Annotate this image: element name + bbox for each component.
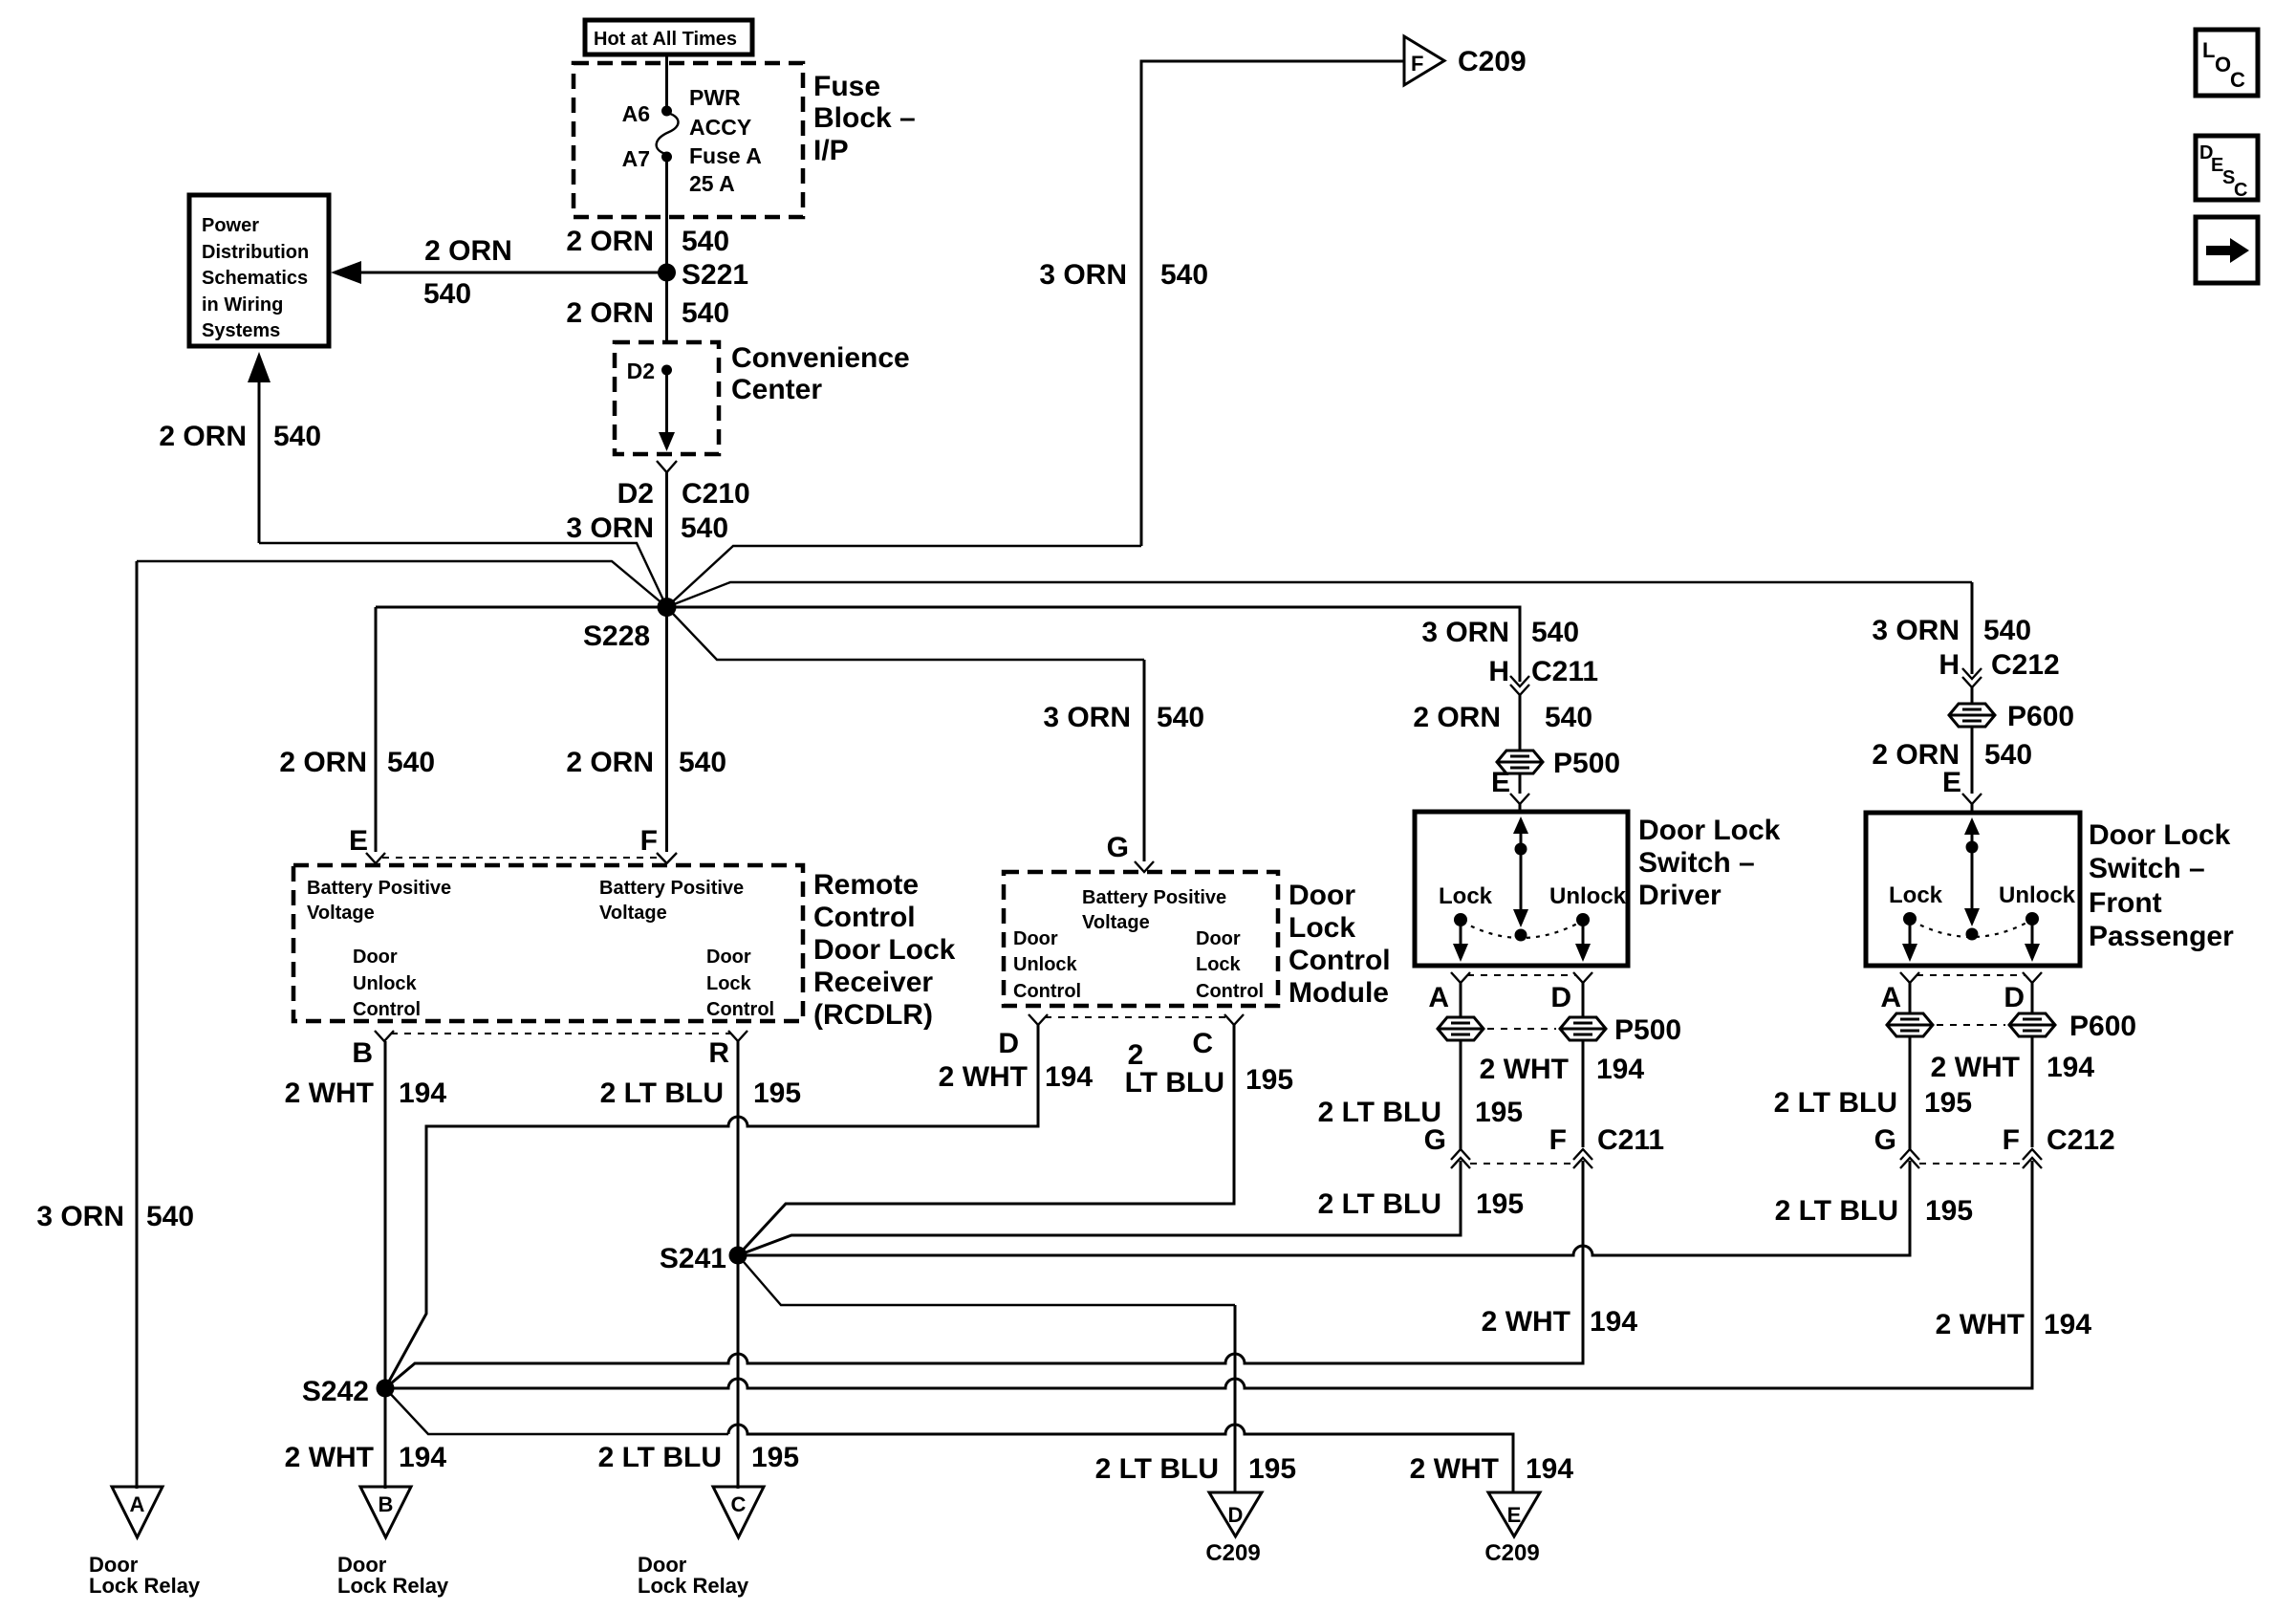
svg-text:540: 540 — [273, 421, 321, 452]
svg-text:S241: S241 — [660, 1243, 726, 1274]
svg-text:Convenience: Convenience — [731, 342, 910, 374]
svg-text:Lock: Lock — [1196, 954, 1242, 975]
svg-text:Control: Control — [1289, 945, 1391, 976]
terminal A6 — [661, 106, 672, 117]
lock contact — [1903, 912, 1917, 925]
svg-text:194: 194 — [399, 1078, 446, 1109]
svg-text:F: F — [1411, 52, 1423, 76]
svg-text:C: C — [731, 1492, 747, 1516]
svg-text:3 ORN: 3 ORN — [36, 1201, 124, 1232]
wire 3 ORN 540 from C210 to S228 — [665, 472, 668, 607]
svg-text:Block –: Block – — [813, 102, 916, 134]
svg-text:540: 540 — [681, 512, 728, 544]
svg-text:P500: P500 — [1553, 748, 1620, 779]
svg-text:PWR: PWR — [689, 85, 741, 110]
svg-text:D2: D2 — [617, 478, 654, 510]
wire from S228 down-right to door lock control module pin G — [667, 607, 1145, 660]
svg-text:195: 195 — [1475, 1097, 1523, 1128]
svg-text:540: 540 — [1545, 702, 1592, 733]
wire from S241 down-right to C209 triangle D (hops over three S242 lines) — [738, 1255, 1235, 1305]
thin dashed connector face line B-R — [391, 1033, 731, 1034]
wire 2 ORN 540 down to RCDLR pin E — [375, 607, 378, 852]
svg-text:2 ORN: 2 ORN — [279, 747, 367, 778]
svg-text:A7: A7 — [622, 146, 650, 171]
wire from S228 to left feed for door lock relay A — [137, 561, 667, 607]
svg-text:Door Lock: Door Lock — [1638, 815, 1781, 846]
svg-text:G: G — [1107, 832, 1129, 863]
svg-text:Unlock: Unlock — [353, 973, 418, 994]
thin dashed connector face line G-F C211 — [1470, 1163, 1573, 1165]
svg-text:2 LT BLU: 2 LT BLU — [1095, 1453, 1219, 1485]
off-page triangle E to C209 — [1488, 1492, 1540, 1536]
svg-text:Lock: Lock — [1439, 883, 1493, 909]
terminal A7 — [661, 152, 672, 163]
svg-text:S221: S221 — [682, 259, 748, 291]
svg-text:540: 540 — [387, 747, 435, 778]
svg-text:194: 194 — [1590, 1306, 1637, 1338]
svg-text:Module: Module — [1289, 977, 1389, 1009]
switch actuator arrow down — [1971, 847, 1974, 910]
switch pin A chevron — [1900, 972, 1919, 983]
switch pin E chevron — [1962, 794, 1982, 804]
svg-text:2 LT BLU: 2 LT BLU — [600, 1078, 724, 1109]
switch pin D chevron — [2023, 972, 2042, 983]
wire 2 ORN 540 from P600 to switch pin E — [1971, 727, 1974, 794]
svg-text:ACCY: ACCY — [689, 115, 751, 140]
wire A to P600 — [1909, 983, 1912, 1013]
wire from S228 down to RCDLR pin F — [665, 607, 668, 852]
RCDLR pin E chevron — [366, 853, 385, 863]
svg-text:Lock Relay: Lock Relay — [89, 1574, 201, 1598]
svg-text:Front: Front — [2089, 887, 2162, 919]
lock output arrow — [1460, 920, 1462, 948]
Hot at All Times banner box — [585, 20, 752, 54]
wire 2 ORN 540 from S221 to Power Distribution (arrow left) — [356, 272, 667, 274]
svg-text:E: E — [1491, 767, 1510, 798]
svg-text:2 LT BLU: 2 LT BLU — [1775, 1195, 1898, 1227]
RCDLR dashed box — [293, 865, 803, 1021]
splice S221 — [658, 264, 676, 282]
wire 2 WHT 194 from RCDLR B down to S242 — [384, 1041, 387, 1489]
svg-text:Control: Control — [813, 902, 916, 933]
svg-text:Receiver: Receiver — [813, 967, 933, 998]
off-page triangle C door lock relay — [713, 1487, 764, 1537]
svg-text:2 WHT: 2 WHT — [1410, 1453, 1499, 1485]
wire from S228 left to RCDLR pin E — [376, 606, 667, 609]
svg-text:195: 195 — [1245, 1064, 1293, 1096]
wire 3 ORN 540 left vertical down to triangle A — [136, 561, 139, 1489]
svg-text:540: 540 — [146, 1201, 194, 1232]
svg-text:Schematics: Schematics — [202, 268, 308, 289]
svg-text:2 WHT: 2 WHT — [1936, 1309, 2025, 1340]
svg-text:3 ORN: 3 ORN — [1421, 617, 1509, 648]
svg-text:B: B — [352, 1037, 373, 1069]
svg-text:P500: P500 — [1614, 1014, 1681, 1046]
svg-text:Door: Door — [1013, 928, 1058, 949]
RCDLR pin R chevron — [728, 1031, 747, 1041]
wire 2 WHT 194 unlock from P500 down — [1582, 1040, 1585, 1147]
svg-text:D: D — [2004, 982, 2025, 1013]
svg-text:Power: Power — [202, 215, 259, 236]
svg-text:540: 540 — [1984, 739, 2032, 771]
lock contact — [1454, 913, 1467, 926]
svg-text:194: 194 — [1596, 1054, 1644, 1085]
svg-text:C: C — [2230, 68, 2245, 92]
thin dashed connector face line E-F — [382, 857, 660, 859]
forward arrow icon box — [2196, 217, 2258, 283]
svg-text:2 LT BLU: 2 LT BLU — [598, 1442, 722, 1473]
svg-text:540: 540 — [1531, 617, 1579, 648]
wire A to P500 — [1460, 983, 1462, 1017]
off-page triangle B door lock relay — [360, 1487, 411, 1537]
switch actuator arrow down — [1520, 849, 1523, 911]
splice S241 — [729, 1247, 747, 1265]
svg-text:in Wiring: in Wiring — [202, 294, 283, 316]
svg-text:F: F — [640, 825, 658, 857]
svg-text:Battery Positive: Battery Positive — [1082, 887, 1226, 908]
connector P500 unlock circuit — [1560, 1017, 1606, 1040]
switch pin E chevron — [1510, 794, 1529, 804]
svg-text:2 ORN: 2 ORN — [566, 747, 654, 778]
wire 2 WHT 194 from C212 F to S242 (level line, hop over R wire) — [385, 1161, 2032, 1388]
svg-text:A6: A6 — [622, 101, 650, 126]
svg-text:C211: C211 — [1531, 656, 1598, 687]
wire from S228 level right to driver door lock switch column — [667, 607, 1521, 682]
thin dashed connector face line A-D — [1467, 974, 1576, 976]
svg-text:Control: Control — [353, 999, 421, 1020]
lock output arrow — [1909, 919, 1912, 948]
svg-text:25 A: 25 A — [689, 171, 735, 196]
svg-text:194: 194 — [2047, 1052, 2094, 1083]
svg-text:195: 195 — [1476, 1188, 1524, 1220]
svg-text:D2: D2 — [627, 359, 655, 383]
dashed wiper arc — [1912, 921, 2030, 937]
svg-text:2 LT BLU: 2 LT BLU — [1774, 1087, 1897, 1119]
splice S242 — [377, 1380, 395, 1398]
svg-text:Door Lock: Door Lock — [813, 934, 956, 966]
wire 2 ORN 540 from S221 down to Convenience Center — [665, 272, 668, 344]
Convenience Center dashed box — [615, 342, 719, 454]
svg-text:L: L — [2202, 38, 2215, 62]
RCDLR pin B chevron — [375, 1031, 394, 1041]
svg-text:S228: S228 — [583, 620, 650, 652]
svg-text:2 ORN: 2 ORN — [566, 297, 654, 329]
svg-text:Control: Control — [706, 999, 774, 1020]
wire 2 LT BLU 195 from C211 G to S241 — [738, 1161, 1461, 1255]
svg-text:G: G — [1424, 1124, 1446, 1156]
svg-text:E: E — [1507, 1503, 1522, 1527]
svg-text:2 LT BLU: 2 LT BLU — [1318, 1097, 1441, 1128]
svg-text:2 WHT: 2 WHT — [939, 1061, 1028, 1093]
svg-text:D: D — [1228, 1503, 1244, 1527]
svg-text:3 ORN: 3 ORN — [1039, 259, 1127, 291]
fuse block I/P dashed box — [574, 63, 803, 217]
svg-text:C209: C209 — [1484, 1540, 1539, 1566]
svg-text:2 WHT: 2 WHT — [1931, 1052, 2020, 1083]
dashed wiper arc — [1462, 922, 1581, 938]
switch pin D chevron — [1573, 972, 1592, 983]
svg-text:Systems: Systems — [202, 320, 280, 341]
unlock output arrow — [1582, 920, 1585, 948]
svg-text:2 LT BLU: 2 LT BLU — [1318, 1188, 1441, 1220]
svg-text:195: 195 — [753, 1078, 801, 1109]
svg-text:P600: P600 — [2007, 701, 2074, 732]
Door Lock Switch Driver box — [1415, 812, 1628, 966]
wire D to P500 — [1582, 983, 1585, 1017]
svg-text:Control: Control — [1013, 981, 1081, 1002]
switch common feed arrow up — [1971, 828, 1974, 846]
svg-text:2 ORN: 2 ORN — [566, 226, 654, 257]
svg-text:194: 194 — [399, 1442, 446, 1473]
svg-text:C209: C209 — [1458, 46, 1527, 77]
svg-text:Voltage: Voltage — [1082, 912, 1150, 933]
connector P500 inline (power feed) — [1497, 751, 1543, 773]
svg-text:Battery Positive: Battery Positive — [307, 878, 451, 899]
Door Lock Switch Front Passenger box — [1866, 813, 2080, 966]
wire 2 LT BLU 195 from module C to S241 — [738, 1025, 1234, 1255]
svg-text:E: E — [349, 825, 368, 857]
svg-text:3 ORN: 3 ORN — [566, 512, 654, 544]
svg-text:A: A — [1428, 982, 1449, 1013]
svg-text:Remote: Remote — [813, 869, 919, 901]
thin dashed connector face line A-D — [1917, 974, 2025, 976]
svg-text:Switch –: Switch – — [2089, 853, 2205, 884]
wire 2 ORN 540 from fuse A7 to splice S221 — [665, 157, 668, 272]
svg-text:C: C — [1192, 1028, 1213, 1059]
svg-text:Voltage: Voltage — [599, 903, 667, 924]
svg-text:540: 540 — [682, 226, 729, 257]
svg-text:LT BLU: LT BLU — [1125, 1067, 1224, 1099]
svg-text:195: 195 — [1248, 1453, 1296, 1485]
svg-text:(RCDLR): (RCDLR) — [813, 999, 933, 1031]
splice S228 — [658, 598, 677, 617]
svg-text:H: H — [1488, 656, 1509, 687]
svg-text:R: R — [708, 1037, 729, 1069]
svg-text:540: 540 — [423, 278, 471, 310]
svg-text:A: A — [130, 1492, 145, 1516]
svg-text:194: 194 — [2044, 1309, 2091, 1340]
svg-text:Door: Door — [353, 947, 398, 968]
wire from S228 right to passenger door lock switch column — [667, 582, 1973, 607]
svg-text:C209: C209 — [1205, 1540, 1260, 1566]
wire 2 LT BLU 195 from RCDLR R down to S241 (hop over D-module line) — [737, 1041, 740, 1489]
svg-text:Door: Door — [1196, 928, 1241, 949]
svg-text:195: 195 — [1925, 1195, 1973, 1227]
svg-text:3 ORN: 3 ORN — [1872, 615, 1960, 646]
svg-text:Fuse A: Fuse A — [689, 143, 762, 168]
svg-text:Driver: Driver — [1638, 880, 1722, 911]
wire from S228 to power distribution arrow branch — [259, 543, 667, 607]
svg-text:C211: C211 — [1597, 1124, 1664, 1156]
dashed tie between P600 halves — [1937, 1024, 2005, 1026]
svg-text:Unlock: Unlock — [1013, 954, 1078, 975]
wire 2 ORN 540 from S228 up into Power Distribution box (arrow up) — [258, 363, 261, 543]
svg-text:Lock: Lock — [1289, 912, 1355, 944]
svg-text:D: D — [998, 1028, 1019, 1059]
svg-text:B: B — [379, 1492, 394, 1516]
svg-text:P600: P600 — [2069, 1011, 2136, 1042]
connector C212 pin G double chevron — [1900, 1149, 1919, 1168]
thin dashed connector face line D-C — [1045, 1016, 1227, 1018]
svg-text:Door: Door — [1289, 880, 1355, 911]
wire from S228 up-right to connector C209 F — [667, 546, 1142, 607]
svg-text:Lock Relay: Lock Relay — [638, 1574, 749, 1598]
connector C211 pin G double chevron — [1451, 1149, 1470, 1168]
svg-text:F: F — [2003, 1124, 2020, 1156]
svg-text:Door: Door — [706, 947, 751, 968]
connector C211 pin F double chevron — [1573, 1149, 1592, 1168]
svg-text:Lock: Lock — [706, 973, 752, 994]
svg-text:540: 540 — [1983, 615, 2031, 646]
module pin D chevron — [1029, 1014, 1048, 1025]
svg-text:2 ORN: 2 ORN — [424, 235, 512, 267]
wire D to P600 — [2031, 983, 2034, 1013]
Door Lock Control Module dashed box — [1004, 872, 1278, 1006]
unlock contact — [2025, 912, 2039, 925]
connector C212 pin F double chevron — [2023, 1149, 2042, 1168]
svg-text:2 ORN: 2 ORN — [159, 421, 247, 452]
svg-text:Unlock: Unlock — [1549, 883, 1627, 909]
svg-text:Door Lock: Door Lock — [2089, 819, 2231, 851]
svg-text:2 ORN: 2 ORN — [1413, 702, 1501, 733]
wire 2 LT BLU 195 lock from P600 down — [1909, 1036, 1912, 1149]
svg-text:F: F — [1549, 1124, 1567, 1156]
svg-text:Control: Control — [1196, 981, 1264, 1002]
svg-text:C212: C212 — [2047, 1124, 2115, 1156]
svg-text:2 WHT: 2 WHT — [1482, 1306, 1570, 1338]
svg-text:A: A — [1880, 982, 1901, 1013]
thin dashed connector face line G-F C212 — [1919, 1163, 2023, 1165]
wire from hot feed into fuse terminal A6 — [665, 54, 668, 109]
wire from P500 to switch pin E — [1519, 773, 1522, 794]
svg-text:195: 195 — [751, 1442, 799, 1473]
svg-text:I/P: I/P — [813, 135, 849, 166]
connector P600 lock circuit — [1887, 1013, 1933, 1036]
svg-text:D: D — [1550, 982, 1571, 1013]
DESC icon box — [2196, 136, 2258, 200]
fuse PWR ACCY Fuse A 25A symbol — [657, 113, 679, 154]
svg-text:Distribution: Distribution — [202, 242, 309, 263]
svg-text:Battery Positive: Battery Positive — [599, 878, 744, 899]
svg-text:540: 540 — [1157, 702, 1204, 733]
wire inside convenience center with down arrow — [665, 370, 668, 435]
svg-text:Switch –: Switch – — [1638, 847, 1755, 879]
svg-text:540: 540 — [679, 747, 726, 778]
svg-text:C212: C212 — [1991, 649, 2060, 681]
RCDLR pin F chevron — [657, 853, 677, 863]
wire 2 WHT 194 from module D to S242 (hop over R wire) — [385, 1025, 1038, 1388]
svg-text:2 WHT: 2 WHT — [285, 1078, 374, 1109]
svg-text:C210: C210 — [682, 478, 750, 510]
wire from S242 down-right to C209 triangle E (hop over R wire) — [385, 1388, 728, 1434]
wire 2 WHT 194 unlock from P600 down — [2031, 1036, 2034, 1147]
svg-text:Hot at All Times: Hot at All Times — [594, 29, 737, 50]
svg-text:2 WHT: 2 WHT — [285, 1442, 374, 1473]
off-page triangle F to C209 — [1404, 36, 1444, 85]
module pin C chevron — [1224, 1014, 1244, 1025]
svg-text:Center: Center — [731, 374, 822, 405]
svg-text:O: O — [2215, 53, 2231, 76]
wire 2 WHT 194 from C211 F to S242 (hops S241 line and R wire) — [385, 1161, 1583, 1388]
svg-text:194: 194 — [1045, 1061, 1093, 1093]
unlock contact — [1576, 913, 1590, 926]
dashed tie between P500 halves — [1487, 1028, 1556, 1030]
svg-text:Lock: Lock — [1889, 882, 1943, 908]
svg-text:195: 195 — [1924, 1087, 1972, 1119]
connector P600 inline (power feed) — [1949, 704, 1995, 727]
svg-text:Passenger: Passenger — [2089, 921, 2234, 952]
pin D2 of convenience center — [661, 365, 672, 376]
svg-text:194: 194 — [1526, 1453, 1573, 1485]
LOC icon box — [2196, 30, 2258, 96]
svg-text:540: 540 — [682, 297, 729, 329]
off-page triangle A door lock relay — [112, 1487, 162, 1537]
svg-text:Unlock: Unlock — [1999, 882, 2076, 908]
wire 2 LT BLU 195 lock from P500 down — [1460, 1040, 1462, 1149]
connector C212 pin H double chevron — [1962, 668, 1982, 687]
svg-text:C: C — [2234, 180, 2247, 201]
svg-text:G: G — [1874, 1124, 1896, 1156]
connector C210 chevron — [657, 461, 677, 472]
svg-text:E: E — [1942, 767, 1961, 798]
svg-text:Fuse: Fuse — [813, 71, 880, 102]
unlock output arrow — [2031, 919, 2034, 948]
svg-text:3 ORN: 3 ORN — [1043, 702, 1131, 733]
switch common feed arrow up — [1520, 828, 1523, 847]
wire from C212 H to P600 — [1971, 687, 1974, 703]
wire 2 ORN 540 from C211 H to P500 — [1519, 695, 1522, 750]
switch pin A chevron — [1451, 972, 1470, 983]
svg-text:Voltage: Voltage — [307, 903, 375, 924]
off-page triangle D to C209 — [1209, 1492, 1262, 1536]
connector C211 pin H double chevron — [1510, 676, 1529, 695]
svg-text:540: 540 — [1160, 259, 1208, 291]
svg-text:H: H — [1939, 649, 1960, 681]
Power Distribution Schematics reference box — [189, 195, 329, 346]
svg-text:S242: S242 — [302, 1376, 369, 1407]
connector P600 unlock circuit — [2009, 1013, 2055, 1036]
svg-text:Lock Relay: Lock Relay — [337, 1574, 449, 1598]
svg-text:2 WHT: 2 WHT — [1480, 1054, 1569, 1085]
door lock control module pin G chevron — [1135, 861, 1154, 872]
wire 2 LT BLU 195 from C212 G to S241 (level line) — [738, 1161, 1910, 1255]
connector P500 lock circuit — [1438, 1017, 1484, 1040]
